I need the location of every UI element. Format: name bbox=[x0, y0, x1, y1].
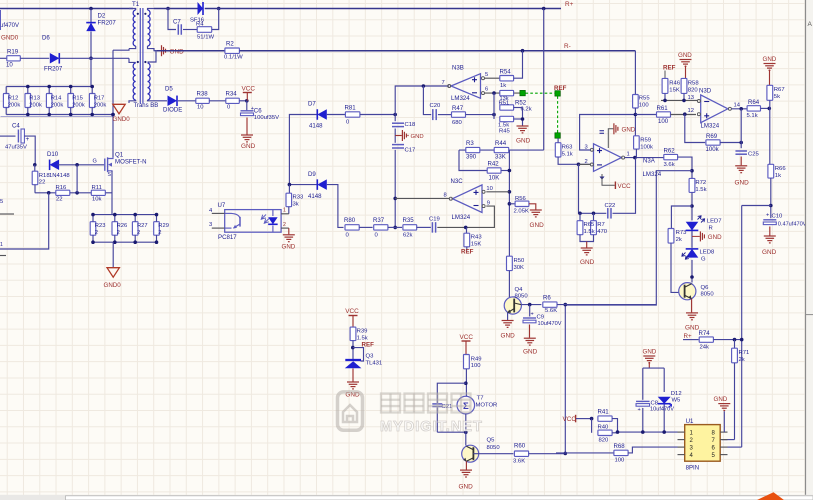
svg-text:3: 3 bbox=[209, 222, 212, 228]
svg-text:+: + bbox=[26, 136, 30, 143]
svg-text:VCC: VCC bbox=[460, 334, 474, 341]
svg-text:100: 100 bbox=[658, 118, 669, 125]
svg-text:390: 390 bbox=[466, 154, 477, 161]
svg-text:R74: R74 bbox=[699, 330, 711, 337]
svg-text:5: 5 bbox=[485, 72, 488, 78]
svg-text:R65: R65 bbox=[584, 222, 596, 228]
svg-text:MOTOR: MOTOR bbox=[476, 403, 498, 409]
svg-text:R68: R68 bbox=[614, 443, 626, 450]
svg-text:+: + bbox=[766, 213, 769, 219]
svg-text:FR207: FR207 bbox=[98, 20, 117, 27]
svg-text:R43: R43 bbox=[471, 235, 483, 241]
svg-text:GND: GND bbox=[685, 325, 700, 332]
svg-text:10: 10 bbox=[486, 186, 492, 192]
svg-text:100: 100 bbox=[615, 458, 626, 464]
svg-text:R59: R59 bbox=[640, 138, 651, 144]
svg-text:R17: R17 bbox=[94, 96, 105, 102]
svg-text:820: 820 bbox=[688, 88, 699, 94]
svg-text:R64: R64 bbox=[748, 99, 760, 106]
svg-text:200k: 200k bbox=[72, 103, 85, 109]
svg-text:R69: R69 bbox=[706, 133, 718, 140]
svg-text:10uf470V: 10uf470V bbox=[538, 321, 562, 327]
svg-text:C6: C6 bbox=[254, 108, 262, 115]
svg-text:R+: R+ bbox=[684, 333, 692, 340]
svg-text:680: 680 bbox=[452, 120, 463, 126]
svg-text:2: 2 bbox=[95, 230, 98, 236]
svg-text:R81: R81 bbox=[345, 105, 357, 112]
svg-text:30K: 30K bbox=[514, 265, 525, 271]
svg-text:C22: C22 bbox=[605, 203, 616, 209]
svg-text:MOSFET-N: MOSFET-N bbox=[115, 159, 146, 166]
svg-text:D10: D10 bbox=[47, 151, 59, 158]
svg-text:Q6: Q6 bbox=[701, 285, 710, 291]
svg-text:N3D: N3D bbox=[699, 88, 712, 95]
svg-text:R47: R47 bbox=[452, 105, 464, 112]
svg-text:1.5k: 1.5k bbox=[584, 229, 595, 235]
svg-text:Q5: Q5 bbox=[487, 438, 496, 444]
svg-text:C17: C17 bbox=[405, 148, 416, 154]
svg-text:10k: 10k bbox=[92, 197, 102, 203]
svg-text:GND: GND bbox=[241, 143, 256, 150]
svg-text:R27: R27 bbox=[137, 223, 148, 229]
svg-text:10: 10 bbox=[6, 62, 13, 69]
svg-text:R26: R26 bbox=[117, 223, 128, 229]
svg-text:C19: C19 bbox=[429, 217, 440, 223]
svg-text:R37: R37 bbox=[373, 217, 385, 224]
svg-text:R44: R44 bbox=[495, 140, 507, 147]
svg-text:R6: R6 bbox=[543, 295, 551, 302]
svg-text:D7: D7 bbox=[308, 101, 316, 108]
svg-text:3.6k: 3.6k bbox=[664, 162, 675, 168]
svg-text:S: S bbox=[108, 172, 112, 178]
svg-text:D5: D5 bbox=[165, 86, 173, 93]
svg-text:R63: R63 bbox=[562, 145, 574, 151]
svg-text:LED8: LED8 bbox=[700, 250, 715, 256]
svg-text:T1: T1 bbox=[132, 1, 140, 8]
svg-text:R15: R15 bbox=[72, 96, 83, 102]
svg-text:Q4: Q4 bbox=[515, 287, 524, 293]
svg-text:1k: 1k bbox=[775, 173, 781, 179]
svg-text:R12: R12 bbox=[8, 96, 19, 102]
svg-text:8: 8 bbox=[444, 193, 447, 199]
svg-text:5k: 5k bbox=[774, 94, 780, 100]
svg-text:2: 2 bbox=[158, 230, 161, 236]
svg-text:2: 2 bbox=[117, 230, 120, 236]
svg-text:GND: GND bbox=[580, 259, 595, 266]
svg-text:7: 7 bbox=[442, 80, 445, 86]
svg-text:R11: R11 bbox=[92, 185, 102, 191]
svg-text:R66: R66 bbox=[775, 166, 787, 172]
svg-text:8050: 8050 bbox=[701, 292, 715, 298]
svg-text:100: 100 bbox=[471, 363, 482, 369]
svg-text:R55: R55 bbox=[639, 96, 651, 102]
svg-text:2: 2 bbox=[283, 222, 286, 228]
svg-text:MYDIGIT.NET: MYDIGIT.NET bbox=[380, 419, 483, 435]
svg-text:C20: C20 bbox=[430, 103, 442, 109]
svg-text:R19: R19 bbox=[7, 49, 19, 56]
svg-text:1k: 1k bbox=[500, 83, 506, 89]
svg-text:2.05K: 2.05K bbox=[514, 209, 529, 215]
svg-text:GND: GND bbox=[708, 234, 722, 241]
svg-text:N3C: N3C bbox=[451, 178, 464, 185]
svg-text:10uf470V: 10uf470V bbox=[650, 407, 674, 413]
svg-text:DIODE: DIODE bbox=[163, 107, 182, 114]
svg-text:R-: R- bbox=[564, 43, 571, 50]
svg-text:R60: R60 bbox=[514, 443, 526, 450]
svg-text:R49: R49 bbox=[471, 356, 482, 362]
svg-text:GND: GND bbox=[530, 222, 545, 229]
svg-text:100k: 100k bbox=[640, 144, 653, 150]
svg-text:200k: 200k bbox=[94, 103, 107, 109]
svg-text:12: 12 bbox=[688, 108, 694, 114]
svg-text:G: G bbox=[93, 159, 97, 165]
svg-text:R73: R73 bbox=[676, 230, 688, 236]
svg-text:GND: GND bbox=[622, 126, 636, 133]
svg-text:R61: R61 bbox=[657, 105, 669, 112]
svg-text:R+: R+ bbox=[565, 1, 574, 8]
svg-text:1.5k: 1.5k bbox=[695, 187, 706, 193]
svg-text:REF: REF bbox=[554, 85, 567, 92]
svg-text:R51: R51 bbox=[499, 101, 510, 107]
svg-text:GND: GND bbox=[170, 49, 185, 56]
svg-text:100k: 100k bbox=[706, 146, 720, 153]
svg-text:Trans BB: Trans BB bbox=[134, 103, 159, 109]
svg-text:R3: R3 bbox=[466, 140, 474, 147]
svg-text:62k: 62k bbox=[403, 232, 413, 238]
svg-text:GND: GND bbox=[411, 134, 424, 140]
svg-text:R7: R7 bbox=[597, 222, 605, 228]
svg-text:GND: GND bbox=[516, 138, 531, 145]
svg-text:R62: R62 bbox=[664, 148, 676, 155]
svg-text:8050: 8050 bbox=[515, 294, 529, 300]
svg-text:R34: R34 bbox=[226, 91, 238, 98]
svg-text:8PIN: 8PIN bbox=[686, 465, 700, 472]
svg-text:LM324: LM324 bbox=[452, 214, 471, 221]
svg-text:LM324: LM324 bbox=[701, 123, 720, 130]
svg-text:TL431: TL431 bbox=[366, 361, 383, 367]
svg-text:D9: D9 bbox=[308, 171, 316, 178]
svg-text:GND0: GND0 bbox=[104, 282, 122, 289]
svg-text:200k: 200k bbox=[8, 103, 21, 109]
svg-text:VCC: VCC bbox=[563, 416, 577, 423]
svg-text:+: + bbox=[638, 407, 641, 413]
svg-text:820: 820 bbox=[599, 438, 610, 444]
svg-text:2k: 2k bbox=[739, 357, 745, 363]
svg-text:C18: C18 bbox=[405, 122, 417, 128]
svg-text:1.5k: 1.5k bbox=[357, 335, 368, 341]
svg-text:R41: R41 bbox=[598, 409, 610, 416]
svg-text:5.1k: 5.1k bbox=[562, 152, 573, 158]
svg-text:R: R bbox=[709, 225, 713, 231]
svg-text:R46: R46 bbox=[669, 81, 681, 87]
svg-text:R33: R33 bbox=[293, 195, 305, 201]
svg-text:5.6K: 5.6K bbox=[545, 308, 557, 314]
svg-text:R71: R71 bbox=[739, 350, 750, 356]
svg-text:10: 10 bbox=[197, 105, 204, 111]
svg-text:5.1k: 5.1k bbox=[747, 113, 758, 119]
svg-text:GND: GND bbox=[762, 249, 777, 256]
svg-text:T7: T7 bbox=[477, 396, 484, 402]
svg-text:R29: R29 bbox=[158, 223, 169, 229]
svg-text:Q3: Q3 bbox=[366, 354, 375, 360]
svg-text:GND0: GND0 bbox=[113, 116, 131, 123]
svg-text:3k: 3k bbox=[293, 201, 299, 207]
svg-text:R18: R18 bbox=[39, 173, 51, 179]
svg-text:Q1: Q1 bbox=[115, 152, 124, 159]
svg-text:6: 6 bbox=[485, 87, 488, 93]
svg-text:1: 1 bbox=[627, 152, 630, 158]
svg-text:VCC: VCC bbox=[345, 308, 359, 315]
svg-text:G: G bbox=[701, 257, 706, 263]
svg-text:C4: C4 bbox=[12, 123, 20, 130]
svg-text:1N4148: 1N4148 bbox=[49, 173, 70, 179]
svg-text:C9: C9 bbox=[537, 315, 545, 321]
svg-text:R72: R72 bbox=[695, 180, 706, 186]
svg-text:GND: GND bbox=[735, 180, 750, 187]
svg-text:FR207: FR207 bbox=[44, 66, 63, 73]
svg-text:100: 100 bbox=[639, 102, 650, 108]
svg-text:R67: R67 bbox=[774, 87, 785, 93]
svg-text:GND: GND bbox=[763, 56, 777, 63]
svg-text:W5: W5 bbox=[672, 398, 682, 404]
svg-text:R42: R42 bbox=[488, 161, 500, 168]
svg-text:LM324: LM324 bbox=[643, 171, 662, 178]
svg-text:R38: R38 bbox=[197, 91, 209, 98]
svg-text:C25: C25 bbox=[748, 152, 760, 158]
svg-text:R40: R40 bbox=[598, 425, 610, 431]
svg-text:LED7: LED7 bbox=[707, 218, 722, 224]
svg-text:200k: 200k bbox=[29, 103, 42, 109]
svg-text:100uf35V: 100uf35V bbox=[254, 115, 279, 121]
svg-text:GND: GND bbox=[643, 349, 657, 356]
svg-text:R16: R16 bbox=[56, 185, 68, 191]
svg-text:GND: GND bbox=[523, 349, 538, 356]
svg-text:R54: R54 bbox=[500, 69, 512, 76]
svg-text:A: A bbox=[808, 21, 813, 28]
svg-text:1: 1 bbox=[283, 208, 286, 214]
svg-text:C10: C10 bbox=[772, 214, 784, 220]
svg-text:D2: D2 bbox=[98, 13, 106, 20]
svg-text:VCC: VCC bbox=[242, 86, 256, 93]
svg-text:U7: U7 bbox=[218, 202, 226, 209]
svg-text:14: 14 bbox=[734, 103, 741, 109]
svg-text:N3A: N3A bbox=[643, 158, 656, 165]
svg-text:200k: 200k bbox=[51, 103, 64, 109]
svg-text:R58: R58 bbox=[688, 81, 700, 87]
svg-text:15K: 15K bbox=[669, 88, 680, 94]
svg-text:2k: 2k bbox=[676, 237, 682, 243]
svg-text:R80: R80 bbox=[344, 217, 356, 224]
svg-text:10K: 10K bbox=[489, 174, 500, 181]
svg-text:N3B: N3B bbox=[452, 65, 464, 72]
svg-text:22: 22 bbox=[39, 180, 46, 186]
svg-text:4148: 4148 bbox=[309, 123, 323, 130]
svg-text:51/1W: 51/1W bbox=[197, 35, 214, 41]
svg-text:R35: R35 bbox=[403, 217, 415, 224]
svg-text:8050: 8050 bbox=[487, 445, 501, 451]
svg-text:0.47uf470V: 0.47uf470V bbox=[778, 222, 807, 228]
svg-text:R50: R50 bbox=[514, 258, 526, 264]
svg-text:GND: GND bbox=[678, 52, 692, 59]
svg-text:GND0: GND0 bbox=[1, 35, 19, 42]
svg-text:R45: R45 bbox=[499, 129, 511, 135]
svg-text:GND: GND bbox=[282, 244, 296, 251]
svg-text:R52: R52 bbox=[515, 100, 527, 107]
svg-text:VCC: VCC bbox=[618, 183, 632, 190]
svg-text:D12: D12 bbox=[671, 391, 682, 397]
svg-text:R13: R13 bbox=[29, 96, 40, 102]
svg-text:R14: R14 bbox=[51, 96, 62, 102]
svg-text:5: 5 bbox=[0, 199, 3, 205]
svg-text:R39: R39 bbox=[357, 329, 368, 335]
svg-text:D6: D6 bbox=[42, 35, 50, 42]
svg-text:22: 22 bbox=[56, 197, 63, 203]
svg-text:3.6K: 3.6K bbox=[513, 459, 525, 465]
svg-text:+: + bbox=[531, 312, 534, 318]
svg-text:0.1/1W: 0.1/1W bbox=[224, 55, 243, 61]
svg-text:470: 470 bbox=[597, 229, 608, 235]
svg-text:4148: 4148 bbox=[308, 193, 322, 200]
svg-text:1: 1 bbox=[0, 242, 3, 248]
svg-text:C7: C7 bbox=[173, 19, 181, 26]
svg-text:uf470V: uf470V bbox=[0, 23, 19, 29]
svg-text:2: 2 bbox=[137, 230, 140, 236]
svg-text:REF: REF bbox=[663, 65, 676, 72]
svg-text:GND: GND bbox=[714, 396, 728, 403]
svg-text:U1: U1 bbox=[686, 418, 694, 425]
svg-text:PC817: PC817 bbox=[218, 234, 237, 241]
svg-text:REF: REF bbox=[461, 249, 474, 256]
svg-text:24k: 24k bbox=[700, 345, 710, 351]
svg-text:R2: R2 bbox=[226, 41, 234, 48]
svg-text:R56: R56 bbox=[515, 196, 527, 202]
svg-text:47uf35V: 47uf35V bbox=[5, 145, 27, 151]
svg-text:GND: GND bbox=[501, 333, 516, 340]
svg-text:R23: R23 bbox=[95, 223, 106, 229]
svg-text:15K: 15K bbox=[471, 241, 482, 247]
svg-text:LM324: LM324 bbox=[451, 95, 470, 102]
svg-text:GND: GND bbox=[459, 484, 474, 491]
